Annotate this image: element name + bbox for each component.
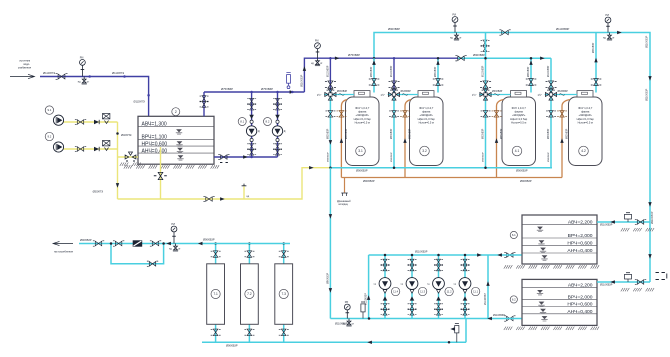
valve at tank 6.2 outlet bbox=[504, 316, 515, 321]
valve above filter 3.1 cluster bbox=[325, 81, 336, 88]
flow arrow up x488 bbox=[486, 281, 489, 286]
uv unit 7.3 body bbox=[275, 264, 293, 325]
svg-text:7.1: 7.1 bbox=[213, 292, 218, 296]
node on tank2 feed drop bbox=[147, 94, 150, 97]
label circle 6.2 bbox=[510, 296, 517, 303]
small hatch under tank 6.1 inlet valve bbox=[621, 228, 654, 231]
3-way cluster of filter 4.2 bbox=[545, 89, 558, 100]
svg-text:нд: нд bbox=[78, 81, 81, 84]
flow arrow right on yellow injection segment bbox=[309, 166, 314, 169]
svg-text:Ø110ХВЗР: Ø110ХВЗР bbox=[301, 74, 304, 87]
svg-text:Ø90ХВЗР: Ø90ХВЗР bbox=[483, 152, 485, 162]
svg-text:Ø63ХВЗР: Ø63ХВЗР bbox=[593, 42, 595, 53]
wire: cluster to cap stub of filter 3.1 (cyan) bbox=[336, 94, 354, 96]
svg-text:1½": 1½" bbox=[472, 93, 476, 97]
hose mark right of cluster 4.1 bbox=[494, 94, 500, 96]
flow arrow right on discharge header bbox=[477, 253, 482, 256]
tank T2 level rows bbox=[138, 126, 214, 153]
svg-text:Ø40ХПЭ: Ø40ХПЭ bbox=[121, 133, 131, 137]
svg-text:11.1: 11.1 bbox=[473, 289, 478, 293]
dark valve on yellow drain run bbox=[203, 196, 214, 201]
flow arrow up on filter 4.1 cap drop bbox=[529, 60, 532, 65]
svg-text:Hфил=1,0 бар: Hфил=1,0 бар bbox=[510, 117, 528, 121]
svg-text:Ø110ХВЗР: Ø110ХВЗР bbox=[415, 251, 428, 254]
drain tap under consumption line bbox=[173, 244, 178, 252]
check valve on 9.1 line bbox=[94, 120, 99, 124]
flow arrow on header2 right part bbox=[540, 57, 545, 60]
wire: cluster to cap stub of filter 4.1 (cyan) bbox=[492, 94, 511, 96]
valve on uv 7.2 top stub bbox=[244, 251, 254, 257]
valve above filter 4.2 cluster bbox=[546, 81, 557, 88]
label circle 9.1 bbox=[45, 106, 53, 114]
wire: header drop to tank 2 top (blue) bbox=[203, 92, 205, 116]
wire: tank2 bottom drain drop (yellow) bbox=[160, 147, 162, 199]
union circle below pump 8.1 bbox=[250, 138, 253, 141]
valve on 9.2 line bbox=[75, 146, 86, 151]
level glyph tank2 row1 bbox=[176, 130, 182, 135]
label circle 9.2 bbox=[45, 132, 53, 140]
check valve of pump 11.2 bbox=[436, 296, 441, 300]
wire: filter 3.2 backwash drain (orange) bbox=[405, 100, 411, 178]
svg-text:РИ: РИ bbox=[171, 222, 175, 226]
node pump 11.2 at discharge header bbox=[437, 254, 440, 257]
svg-text:Ø110ХПЭ: Ø110ХПЭ bbox=[112, 71, 124, 75]
svg-text:Ø90ХВЗР: Ø90ХВЗР bbox=[226, 344, 238, 348]
outlet cone of pump 11.1 bbox=[463, 290, 467, 294]
svg-text:АВЧ=2,200: АВЧ=2,200 bbox=[568, 219, 593, 225]
flow arrow left on consumption line bbox=[166, 242, 171, 245]
svg-text:Ø63ХВЗР: Ø63ХВЗР bbox=[483, 128, 485, 139]
filter 3.2 top cap bbox=[418, 91, 434, 97]
node pump 11.3 at discharge header bbox=[411, 254, 414, 257]
flow arrow up x368 bbox=[367, 295, 370, 300]
svg-text:Ø110ХВЗР: Ø110ХВЗР bbox=[335, 322, 348, 325]
wire: dosing stub to tank2 left nozzle (yellow) bbox=[118, 156, 139, 158]
suction valve pair of pump 11.1 (lower) bbox=[461, 309, 470, 315]
label circle 3.1 bbox=[356, 146, 366, 156]
ground hatch under 3-way tank2 nozzle bbox=[120, 163, 141, 166]
svg-text:АВЧ=1,300: АВЧ=1,300 bbox=[142, 121, 167, 127]
label circle 4.2 bbox=[579, 146, 589, 156]
svg-text:Ø90ХВЗР: Ø90ХВЗР bbox=[356, 168, 368, 172]
level glyph tank2 row4 bbox=[177, 156, 183, 161]
svg-text:Ø63ХВЗР: Ø63ХВЗР bbox=[528, 66, 530, 77]
svg-text:Ø90ХВЗР: Ø90ХВЗР bbox=[363, 179, 375, 183]
svg-text:Ø63ХВЗР: Ø63ХВЗР bbox=[558, 91, 569, 93]
wire: dosing line from pump 9.2 (yellow) bbox=[63, 148, 118, 150]
gauge PI1 on inlet bbox=[80, 60, 86, 77]
damper box on 9.1 line bbox=[103, 114, 110, 124]
flow arrow down right riser y79 bbox=[648, 76, 651, 81]
label circle 11.1 bbox=[471, 287, 479, 295]
valve on tank 2 outlet bbox=[218, 154, 229, 159]
wire: pump 11.4 vertical (cyan) bbox=[384, 255, 386, 319]
tank 6.1 level glyph 1 bbox=[537, 227, 543, 232]
wire: filter 3.2 inlet drop lower (cyan) bbox=[393, 91, 395, 168]
label circle 8.1 bbox=[238, 118, 246, 126]
wire: uv unit 7.1 bottom stub (cyan) bbox=[215, 324, 217, 342]
tank 6.2 level glyph 1 bbox=[537, 290, 543, 295]
node bypass left bbox=[110, 242, 113, 245]
wire: main drain run to injection point (yellow) bbox=[118, 168, 331, 199]
discharge valve pair of pump 8.1 (lower) bbox=[247, 104, 256, 110]
wire: suction header (cyan) bbox=[330, 318, 521, 320]
wire: cluster to cap stub of filter 3.2 (cyan) bbox=[400, 94, 418, 96]
valve on filter 4.1 lower drop bbox=[481, 111, 491, 117]
wire: drain-well stub (orange) bbox=[344, 178, 346, 193]
node pump 11.1 at discharge header bbox=[464, 254, 467, 257]
strainer on consumption line bbox=[133, 240, 143, 246]
wire: drop from header to filter 4.1 cap (cyan) bbox=[530, 58, 532, 92]
small hatch under tank 6.2 inlet valve bbox=[621, 288, 654, 291]
filter 3.1 tank body bbox=[346, 97, 380, 166]
svg-text:Ø75ХВЗР: Ø75ХВЗР bbox=[221, 87, 233, 91]
outlet cone of pump 11.3 bbox=[410, 290, 414, 294]
filter 4.2 top cap bbox=[577, 91, 593, 97]
check valve of pump 11.4 bbox=[383, 296, 388, 300]
valve on filter 4.1 orange drain bbox=[492, 111, 502, 117]
check valve of pump 11.1 bbox=[463, 296, 468, 300]
svg-text:РИ: РИ bbox=[315, 39, 319, 43]
arrow mark at sampler bbox=[450, 327, 455, 330]
node uv 7.2 at top header bbox=[248, 242, 251, 245]
valve on filter 3.1 cap drop bbox=[369, 79, 380, 86]
wire: filter 3.1 inlet drop lower (cyan) bbox=[329, 91, 331, 168]
svg-text:«ЭКОДАР»: «ЭКОДАР» bbox=[512, 113, 526, 117]
svg-text:9.2: 9.2 bbox=[47, 135, 51, 139]
svg-text:Д: Д bbox=[258, 130, 260, 133]
discharge valve pair of pump 11.2 (upper) bbox=[434, 259, 443, 265]
node riser x374 at header2 bbox=[373, 57, 376, 60]
check valve on 9.2 line bbox=[94, 147, 99, 151]
flow arrow into tank 6.2 bbox=[610, 280, 615, 283]
wire: drop from header to filter 3.1 cap (cyan) bbox=[373, 58, 375, 92]
wire: filter 4.2 backwash drain (orange) bbox=[562, 100, 570, 178]
svg-text:колодец: колодец bbox=[339, 203, 349, 206]
svg-text:Ø110ХВЗР: Ø110ХВЗР bbox=[556, 27, 569, 31]
drain tap under suction header bbox=[346, 319, 351, 327]
svg-text:11.4: 11.4 bbox=[393, 289, 398, 293]
filter 3.1 top cap bbox=[354, 91, 370, 97]
tank 6.2 level glyph 3 bbox=[540, 309, 546, 314]
flow arrow down on dosing collector bbox=[116, 183, 119, 188]
wire: uv unit 7.3 bottom stub (cyan) bbox=[283, 324, 285, 342]
svg-text:нд: нд bbox=[374, 284, 377, 286]
gauge PI4 on header1 right bbox=[605, 17, 611, 32]
svg-text:нд: нд bbox=[247, 196, 250, 198]
valve on header2 blue/cyan boundary bbox=[455, 56, 466, 61]
wire: drop from header to filter 4.2 cap (cyan) bbox=[595, 33, 597, 93]
pump 11.1 body bbox=[459, 278, 471, 290]
svg-text:7.3: 7.3 bbox=[281, 292, 286, 296]
flow arrow left on uv top header bbox=[198, 242, 203, 245]
svg-text:фирма: фирма bbox=[422, 110, 431, 114]
valve on filter 3.1 orange drain bbox=[336, 111, 346, 117]
flow arrow on filter 4.2 orange drain bbox=[560, 138, 563, 143]
wire: pump 11.1 vertical (cyan) bbox=[464, 255, 466, 319]
suction valve pair of pump 11.1 (upper) bbox=[461, 304, 470, 310]
svg-text:фирма: фирма bbox=[515, 110, 524, 114]
svg-text:Ø90ХВЗР: Ø90ХВЗР bbox=[391, 152, 393, 162]
svg-text:от: от bbox=[87, 81, 90, 84]
flow arrow left on uv bottom header bbox=[367, 341, 372, 344]
flow meter on riser bbox=[286, 73, 290, 89]
flag marks under tank2 outlet valve bbox=[220, 162, 228, 164]
filter 4.2 tank body bbox=[569, 97, 603, 166]
node: raw water source inlet arrow bbox=[10, 74, 35, 78]
pump 8.1 body bbox=[246, 126, 256, 136]
svg-text:8.1: 8.1 bbox=[240, 120, 244, 124]
uv unit 7.1 body bbox=[207, 264, 225, 325]
svg-text:от: от bbox=[612, 37, 615, 40]
svg-text:8.2: 8.2 bbox=[266, 120, 270, 124]
valve pair on tank2 top drop (lower) bbox=[200, 102, 209, 108]
suction valve pair of pump 11.2 (lower) bbox=[434, 309, 443, 315]
node pump 8.1 discharge at header bbox=[250, 91, 253, 94]
node where 9.1 joins collector bbox=[116, 132, 119, 135]
svg-text:от: от bbox=[459, 37, 462, 40]
3-way cluster of filter 4.1 bbox=[479, 89, 492, 100]
wire: vertical x368 discharge to uv feed (cyan) bbox=[368, 255, 370, 319]
wire: drain stub riser (yellow) bbox=[243, 187, 245, 200]
check valve of pump 8.2 bbox=[275, 115, 280, 119]
flow arrow up on filter 3.1 cap drop bbox=[372, 60, 375, 65]
wire: uv unit 7.2 top stub (cyan) bbox=[248, 244, 250, 264]
gauge PI2 on header2 bbox=[315, 43, 321, 58]
svg-text:Ø110ХВЗР: Ø110ХВЗР bbox=[600, 284, 613, 287]
wire: filtrate bottom header (cyan) bbox=[330, 167, 552, 169]
svg-text:ФСУ 1,0-0,7: ФСУ 1,0-0,7 bbox=[419, 106, 434, 110]
flow arrow up riser x374 bbox=[372, 60, 375, 65]
svg-text:Ø110ХВЗР: Ø110ХВЗР bbox=[365, 293, 368, 305]
union circle below pump 8.2 bbox=[276, 138, 279, 141]
node pump 11.4 at discharge header bbox=[384, 254, 387, 257]
svg-text:1½": 1½" bbox=[381, 93, 385, 97]
discharge valve pair of pump 11.4 (upper) bbox=[381, 259, 390, 265]
valve on uv 7.3 top stub bbox=[279, 251, 289, 257]
node pump 8.2 discharge at header bbox=[276, 91, 279, 94]
svg-text:Ø90ХВЗР: Ø90ХВЗР bbox=[548, 152, 550, 162]
svg-text:нд: нд bbox=[603, 37, 606, 40]
wire: filter 4.1 inlet drop (cyan) bbox=[485, 33, 487, 168]
3-way cluster of filter 3.2 bbox=[388, 89, 401, 100]
svg-text:11.3: 11.3 bbox=[420, 289, 425, 293]
flow arrow up on filter 4.2 cap drop bbox=[594, 58, 597, 63]
wire: filter 4.1 backwash drain (orange) bbox=[497, 100, 504, 178]
wire: backwash drain header (orange) bbox=[341, 177, 562, 179]
flow arrow on header2 bbox=[335, 57, 340, 60]
filter 4.1 tank body bbox=[502, 97, 536, 166]
wire: uv unit 7.3 top stub (cyan) bbox=[283, 244, 285, 264]
gauge PI3 on header1 bbox=[452, 17, 458, 33]
svg-text:Ø110ХВЗР: Ø110ХВЗР bbox=[651, 211, 654, 224]
valve on filter 3.1 lower drop bbox=[325, 111, 335, 117]
svg-text:Ø90ХВЗР: Ø90ХВЗР bbox=[520, 179, 532, 183]
svg-text:Ø63ХВЗР: Ø63ХВЗР bbox=[401, 91, 412, 93]
node on inlet after gauge bbox=[88, 75, 91, 78]
flow arrow on down-comer y291 bbox=[329, 288, 332, 293]
discharge valve pair of pump 11.4 (lower) bbox=[381, 265, 390, 271]
node filtrate header at x485 bbox=[484, 166, 487, 169]
dosing pump 9.1 body bbox=[53, 115, 63, 125]
wire: filter 3.1 backwash drain (orange) bbox=[341, 100, 347, 178]
discharge valve pair of pump 8.2 (upper) bbox=[273, 98, 282, 104]
svg-text:НРЧ=0,600: НРЧ=0,600 bbox=[142, 141, 168, 147]
svg-text:Ø110ХВЗР: Ø110ХВЗР bbox=[600, 224, 613, 227]
stub marks right of riser top of 6.2 inlet bbox=[656, 273, 667, 280]
wire: vertical x488 from 6.1 outlet to suction header (cyan) bbox=[487, 255, 489, 319]
svg-text:ФСУ 1,0-0,7: ФСУ 1,0-0,7 bbox=[578, 106, 593, 110]
node x531 at header2 bbox=[530, 57, 533, 60]
wire: pump 8.1 vertical (blue) bbox=[251, 92, 253, 157]
svg-text:7.2: 7.2 bbox=[247, 292, 252, 296]
svg-text:Ø110ХВЗР: Ø110ХВЗР bbox=[548, 65, 550, 77]
svg-text:фирма: фирма bbox=[358, 110, 367, 114]
label circle 8.2 bbox=[264, 118, 272, 126]
svg-text:Ø110ХВЗР: Ø110ХВЗР bbox=[646, 88, 649, 101]
node x438 at header2 bbox=[437, 57, 440, 60]
svg-text:Ø110ХВЗР: Ø110ХВЗР bbox=[483, 65, 485, 77]
valve on header1 at x505 bbox=[499, 30, 510, 35]
tank 6.1 level rows bbox=[522, 224, 597, 253]
suction valve pair of pump 11.3 (lower) bbox=[408, 309, 417, 315]
drain well symbol bbox=[341, 193, 347, 196]
discharge valve pair of pump 11.1 (upper) bbox=[461, 259, 470, 265]
consumption outlet arrow bbox=[53, 241, 73, 245]
suction valve pair of pump 8.1 (lower) bbox=[247, 149, 256, 155]
valve above filter 3.2 cluster bbox=[389, 81, 400, 88]
wire: tank 6.2 inlet from right riser (cyan) bbox=[597, 281, 650, 283]
svg-text:АНЧ=0,400: АНЧ=0,400 bbox=[567, 248, 592, 254]
svg-text:Ø63ХВЗР: Ø63ХВЗР bbox=[435, 66, 437, 77]
float valve box at tank 6.1 inlet bbox=[625, 213, 632, 222]
svg-text:от: от bbox=[320, 62, 323, 65]
svg-text:Hфил=1,0 бар: Hфил=1,0 бар bbox=[418, 117, 436, 121]
wire: consumption bypass (cyan) bbox=[111, 244, 164, 264]
svg-text:Ø63ХВЗР: Ø63ХВЗР bbox=[337, 91, 348, 93]
svg-text:Hслоя=0,5 м: Hслоя=0,5 м bbox=[419, 121, 434, 125]
label circle (2) of tank 2 bbox=[172, 108, 180, 116]
tank 6.2 level glyph 4 bbox=[541, 316, 547, 321]
valve on uv 7.2 bottom stub bbox=[244, 329, 254, 335]
flow arrow down right riser y205 bbox=[648, 202, 651, 207]
svg-text:Ø63ХВЗР: Ø63ХВЗР bbox=[548, 128, 550, 139]
wire: filter 3.1 inlet drop upper (blue) bbox=[329, 58, 331, 91]
filter 3.2 tank body bbox=[410, 97, 444, 166]
drain tap under header1 at x456 bbox=[454, 33, 459, 41]
flow arrow on header1 right bbox=[617, 31, 622, 34]
svg-text:1½": 1½" bbox=[538, 93, 542, 97]
flow arrow right on yellow drain run bbox=[220, 197, 225, 200]
flow arrow down right riser y257 bbox=[648, 254, 651, 259]
flow arrow on filter 3.2 orange drain bbox=[403, 138, 406, 143]
svg-text:11.2: 11.2 bbox=[447, 289, 452, 293]
svg-text:нд: нд bbox=[401, 284, 404, 286]
sampling tap above uv bottom header bbox=[455, 324, 459, 343]
sampling tap on suction header bbox=[361, 302, 365, 319]
vent cap on drain stub bbox=[242, 184, 247, 186]
valve on filter 4.1 cap drop bbox=[526, 79, 537, 86]
wire: riser x466 suction to uv bottom header (cyan) bbox=[465, 319, 467, 343]
node x394 at header2 bbox=[393, 57, 396, 60]
svg-text:РИ: РИ bbox=[345, 300, 349, 304]
wire: tank 2 outlet / pump suction line (blue) bbox=[214, 156, 278, 158]
svg-text:Ø90ХВЗР: Ø90ХВЗР bbox=[473, 53, 485, 57]
wire: dosing collector drop (yellow) bbox=[117, 122, 119, 199]
3-way valve at tank2 left nozzle bbox=[125, 152, 136, 161]
valve on 9.1 line bbox=[75, 119, 86, 124]
valve on filter 3.2 lower drop bbox=[389, 111, 399, 117]
suction valve pair of pump 8.1 (upper) bbox=[247, 144, 256, 150]
node on inlet before corner bbox=[123, 75, 126, 78]
svg-text:4.2: 4.2 bbox=[581, 149, 586, 153]
check valve of pump 8.1 bbox=[249, 115, 254, 119]
suction valve pair of pump 11.3 (upper) bbox=[408, 304, 417, 310]
valve at tank 6.2 inlet bbox=[635, 279, 646, 284]
svg-text:«ЭКОДАР»: «ЭКОДАР» bbox=[579, 113, 593, 117]
ground hatch under tank 6.1 bbox=[504, 265, 599, 268]
node filtrate header at x394 bbox=[393, 166, 396, 169]
valve 1 on consumption line bbox=[93, 241, 104, 246]
flow arrow up on filter 3.2 cap drop bbox=[436, 60, 439, 65]
wire: drop from header to filter 3.2 cap (cyan) bbox=[437, 58, 439, 92]
wire: pump 11.3 vertical (cyan) bbox=[411, 255, 413, 319]
node header-riser bbox=[291, 91, 294, 94]
svg-text:РИ: РИ bbox=[80, 55, 84, 59]
label circle 11.4 bbox=[391, 287, 399, 295]
flow arrow on filter 4.1 orange drain bbox=[495, 138, 498, 143]
svg-text:Hфил=1,0 бар: Hфил=1,0 бар bbox=[354, 117, 372, 121]
svg-text:«ЭКОДАР»: «ЭКОДАР» bbox=[420, 113, 434, 117]
valve 2 on consumption line bbox=[113, 241, 124, 246]
svg-text:Ø50ХПЭ: Ø50ХПЭ bbox=[93, 190, 103, 194]
node x368 at suction header bbox=[368, 317, 371, 320]
label circle 6.1 bbox=[510, 231, 517, 238]
svg-text:ВРЧ=1,100: ВРЧ=1,100 bbox=[142, 135, 168, 141]
valve on filter 4.2 cap drop bbox=[591, 79, 602, 86]
node x330 at header2 bbox=[329, 57, 332, 60]
svg-text:от: от bbox=[178, 248, 181, 251]
pump 11.4 body bbox=[379, 278, 391, 290]
wire: uv bottom header (cyan) bbox=[202, 341, 466, 343]
pump 11.3 body bbox=[406, 278, 418, 290]
svg-text:РИ: РИ bbox=[452, 13, 456, 17]
svg-text:Ø110ХВЗР: Ø110ХВЗР bbox=[484, 293, 487, 305]
svg-text:нд: нд bbox=[427, 284, 430, 286]
svg-text:Ø110ХВЗР: Ø110ХВЗР bbox=[646, 35, 649, 48]
valve on bypass bbox=[147, 261, 158, 266]
svg-text:нд: нд bbox=[169, 248, 172, 251]
svg-text:Ø75ХВЗР: Ø75ХВЗР bbox=[348, 53, 360, 57]
svg-text:нд: нд bbox=[450, 37, 453, 40]
wire: pump 11.2 vertical (cyan) bbox=[438, 255, 440, 319]
suction valve pair of pump 11.4 (lower) bbox=[381, 309, 390, 315]
svg-text:ФСУ 1,0-0,7: ФСУ 1,0-0,7 bbox=[355, 106, 370, 110]
union circle above pump 8.2 bbox=[276, 120, 279, 123]
svg-text:АВЧ=2,200: АВЧ=2,200 bbox=[568, 283, 593, 289]
svg-text:Ø63ХВЗР: Ø63ХВЗР bbox=[327, 128, 329, 139]
valve on uv 7.1 top stub bbox=[211, 251, 221, 257]
svg-text:НРЧ=0,600: НРЧ=0,600 bbox=[567, 240, 592, 246]
float valve box at tank 6.2 inlet bbox=[625, 273, 632, 282]
wire: filter 3.2 inlet drop upper (blue) bbox=[393, 58, 395, 91]
node uv 7.3 at top header bbox=[282, 242, 285, 245]
valve pair on tank2 top drop (upper) bbox=[200, 96, 209, 102]
valve on uv 7.3 bottom stub bbox=[279, 329, 289, 335]
ground hatch under tank 2 bbox=[124, 165, 219, 168]
wire: header2 cyan part bbox=[458, 57, 551, 59]
tank 6.1 level glyph 3 bbox=[540, 248, 546, 253]
